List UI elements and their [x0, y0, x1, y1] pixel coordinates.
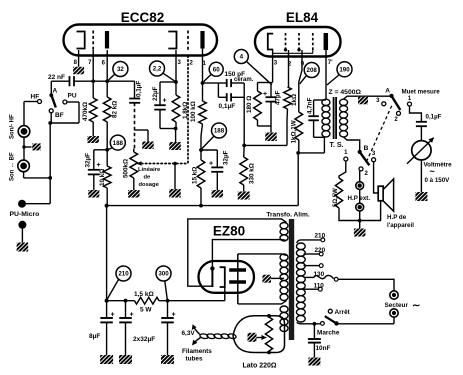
svg-text:céram.: céram. [234, 77, 254, 83]
svg-text:l'appareil: l'appareil [387, 222, 414, 229]
svg-text:Secteur: Secteur [385, 302, 409, 309]
svg-text:10 kΩ: 10 kΩ [99, 169, 106, 186]
svg-text:+: + [130, 312, 134, 319]
svg-text:A: A [53, 88, 58, 95]
svg-text:0,1µF: 0,1µF [219, 103, 236, 110]
svg-text:8µF: 8µF [89, 333, 100, 340]
svg-text:+: + [97, 162, 101, 169]
svg-text:Son/- HF: Son/- HF [10, 114, 16, 139]
svg-text:110: 110 [314, 283, 325, 290]
svg-text:190: 190 [339, 67, 350, 74]
svg-text:H.P de: H.P de [387, 214, 407, 221]
svg-text:0 à 150V: 0 à 150V [425, 177, 451, 184]
svg-text:210: 210 [118, 271, 129, 278]
svg-text:1,5 kΩ: 1,5 kΩ [134, 291, 154, 298]
svg-text:5 W: 5 W [140, 307, 152, 314]
svg-text:ECC82: ECC82 [121, 10, 165, 25]
svg-text:+: + [263, 91, 267, 98]
svg-text:HF: HF [31, 94, 40, 101]
svg-text:~: ~ [430, 167, 435, 177]
svg-text:dosage: dosage [139, 182, 160, 188]
svg-text:500kΩ: 500kΩ [123, 159, 130, 178]
svg-text:32µF: 32µF [223, 150, 230, 165]
svg-text:Linéaire: Linéaire [138, 167, 161, 173]
svg-text:2x32µF: 2x32µF [133, 336, 155, 343]
svg-text:470kΩ: 470kΩ [82, 102, 89, 121]
svg-text:15 kΩ: 15 kΩ [192, 167, 199, 184]
svg-text:330 kΩ: 330 kΩ [249, 163, 256, 184]
svg-text:208: 208 [307, 67, 318, 74]
svg-text:22µF: 22µF [152, 86, 159, 101]
svg-text:0,1µF: 0,1µF [426, 114, 442, 121]
svg-text:Voltmètre: Voltmètre [424, 162, 453, 169]
svg-text:+: + [163, 98, 167, 105]
svg-text:PU-Micro: PU-Micro [10, 211, 40, 218]
svg-text:100 kΩ: 100 kΩ [190, 101, 197, 122]
svg-text:1kΩ: 1kΩ [291, 94, 298, 106]
svg-text:+: + [111, 312, 115, 319]
svg-text:5Ω,5W: 5Ω,5W [333, 188, 339, 207]
svg-text:188: 188 [113, 140, 124, 147]
svg-text:7': 7' [328, 60, 333, 66]
svg-text:A: A [385, 88, 390, 95]
svg-text:60: 60 [213, 67, 220, 74]
svg-text:1,8kΩ: 1,8kΩ [182, 102, 189, 119]
svg-text:82 kΩ: 82 kΩ [112, 101, 119, 118]
svg-text:EL84: EL84 [286, 10, 319, 25]
svg-text:300: 300 [158, 271, 169, 278]
svg-text:32µF: 32µF [85, 153, 92, 168]
svg-text:10nF: 10nF [316, 345, 331, 352]
svg-text:Marche: Marche [317, 330, 340, 337]
svg-text:tubes: tubes [186, 356, 203, 363]
svg-text:Muet mesure: Muet mesure [402, 89, 441, 96]
svg-text:4: 4 [240, 54, 244, 61]
svg-text:Son ↔ BF: Son ↔ BF [10, 152, 16, 181]
svg-text:130: 130 [314, 271, 325, 278]
svg-text:0,1µF: 0,1µF [136, 81, 143, 97]
svg-text:1kΩ,1W: 1kΩ,1W [291, 120, 298, 143]
svg-text:BF: BF [55, 112, 64, 119]
svg-text:32: 32 [117, 66, 124, 73]
svg-text:210: 210 [315, 233, 326, 240]
svg-text:H.P ext.: H.P ext. [348, 195, 371, 202]
svg-text:180 Ω: 180 Ω [246, 96, 253, 113]
svg-text:+: + [172, 312, 176, 319]
svg-text:Transfo. Alim.: Transfo. Alim. [266, 212, 310, 219]
svg-text:2,2: 2,2 [153, 66, 162, 73]
svg-text:B: B [364, 145, 369, 152]
svg-text:4,7nF: 4,7nF [307, 97, 314, 114]
svg-text:Arrêt: Arrêt [335, 309, 351, 316]
svg-text:Z = 4500Ω: Z = 4500Ω [329, 89, 362, 96]
svg-text:22 nF: 22 nF [48, 74, 65, 81]
svg-text:de: de [144, 175, 152, 181]
svg-text:EZ80: EZ80 [213, 224, 245, 239]
svg-text:Lato 220Ω: Lato 220Ω [243, 363, 277, 370]
svg-text:+: + [209, 161, 213, 168]
svg-text:T. S.: T. S. [330, 142, 344, 149]
svg-text:6,3V: 6,3V [182, 330, 196, 337]
svg-text:188: 188 [214, 128, 225, 135]
svg-text:Filaments: Filaments [182, 348, 212, 355]
svg-text:PU: PU [68, 93, 77, 100]
svg-text:220: 220 [315, 247, 326, 254]
svg-text:47µF: 47µF [275, 90, 282, 105]
svg-text:∼: ∼ [412, 301, 420, 312]
